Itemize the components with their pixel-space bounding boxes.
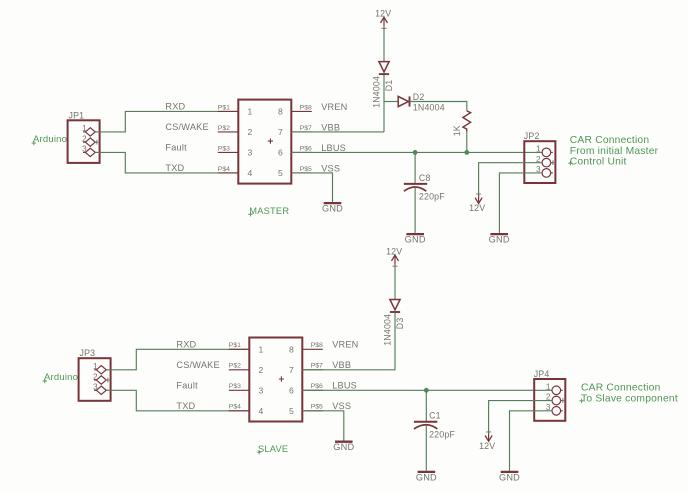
svg-text:P$1: P$1	[229, 342, 241, 349]
svg-text:D1: D1	[384, 80, 394, 92]
svg-text:From initial Master: From initial Master	[570, 146, 659, 157]
ground below JP2	[489, 234, 510, 245]
svg-text:220pF: 220pF	[429, 429, 455, 439]
svg-text:1: 1	[546, 381, 551, 391]
svg-text:VSS: VSS	[321, 163, 340, 173]
capacitor C8 (polarized)	[404, 184, 427, 191]
svg-text:LBUS: LBUS	[332, 381, 357, 391]
svg-text:1N4004: 1N4004	[413, 102, 445, 112]
svg-text:Arduino: Arduino	[44, 372, 78, 383]
svg-text:1: 1	[259, 344, 264, 354]
wire JP2 pin3 to ground	[499, 173, 542, 233]
wire JP1 pin1 up to IC pin1 (RXD net)	[95, 111, 238, 131]
wire 12V to D3 anode	[394, 266, 396, 299]
svg-text:VSS: VSS	[332, 401, 351, 411]
svg-text:3: 3	[248, 148, 253, 158]
wire JP2 pin2 to 12V supply	[479, 163, 542, 194]
svg-text:1: 1	[93, 361, 98, 371]
svg-text:12V: 12V	[375, 9, 391, 19]
svg-text:VBB: VBB	[321, 122, 340, 132]
wire VSS (IC pin5) to ground	[291, 173, 332, 202]
svg-text:JP3: JP3	[80, 348, 96, 358]
wire JP1 pin3 down to IC pin4 (TXD net)	[95, 152, 238, 173]
ground below VSS (slave)	[333, 442, 354, 453]
svg-text:P$5: P$5	[300, 166, 312, 173]
svg-text:5: 5	[278, 168, 283, 178]
green label MASTER	[248, 206, 289, 216]
wire D3 cathode down to VBB row	[302, 313, 395, 370]
svg-text:LBUS: LBUS	[321, 143, 346, 153]
svg-text:JP1: JP1	[69, 110, 85, 120]
diode D1 1N4004 (vertical)	[379, 62, 389, 75]
svg-text:2: 2	[82, 133, 87, 143]
svg-text:CS/WAKE: CS/WAKE	[176, 360, 219, 370]
diode D3 1N4004 (vertical)	[390, 300, 400, 313]
green note: CAR Connection From initial Master Control Unit	[568, 135, 658, 168]
junction dot LBUS / C1	[424, 388, 429, 393]
svg-text:C1: C1	[429, 411, 441, 421]
svg-text:GND: GND	[416, 472, 437, 482]
supply +12V up-arrow (slave)	[394, 255, 396, 266]
svg-text:5: 5	[289, 406, 294, 416]
svg-text:D3: D3	[395, 318, 405, 330]
IC SLAVE right pin stubs (pins 8-5)	[302, 349, 323, 411]
svg-text:GND: GND	[489, 235, 510, 245]
svg-text:GND: GND	[405, 235, 426, 245]
svg-text:2: 2	[248, 127, 253, 137]
connector JP3 (3-pin Arduino header)	[79, 348, 111, 401]
svg-text:MASTER: MASTER	[249, 206, 289, 216]
ground below VSS (master)	[322, 203, 343, 214]
svg-text:CAR Connection: CAR Connection	[581, 383, 661, 394]
svg-text:VBB: VBB	[332, 360, 351, 370]
svg-text:7: 7	[289, 365, 294, 375]
wire JP3 pin3 down to IC pin4 (TXD net)	[106, 390, 249, 411]
svg-text:C8: C8	[419, 173, 431, 183]
svg-text:8: 8	[289, 344, 294, 354]
green note: CAR Connection To Slave component	[579, 383, 678, 405]
wire JP4 pin2 to 12V supply	[489, 401, 552, 432]
svg-text:P$1: P$1	[218, 104, 230, 111]
junction dot LBUS / C8	[413, 150, 418, 155]
svg-text:6: 6	[278, 148, 283, 158]
svg-text:3: 3	[93, 382, 98, 392]
svg-text:P$3: P$3	[218, 145, 230, 152]
svg-text:Arduino: Arduino	[33, 134, 67, 145]
svg-text:1K: 1K	[452, 125, 462, 136]
svg-text:4: 4	[259, 406, 264, 416]
svg-text:P$8: P$8	[311, 342, 323, 349]
connector JP2 (CAR connection master)	[524, 131, 556, 183]
svg-text:VREN: VREN	[321, 102, 347, 112]
svg-text:P$6: P$6	[311, 383, 323, 390]
wire D2 cathode to resistor top	[410, 102, 467, 111]
supply 12V down-arrow at JP2	[478, 194, 480, 203]
svg-text:SLAVE: SLAVE	[258, 444, 288, 454]
svg-text:P$3: P$3	[229, 383, 241, 390]
wire JP4 pin3 to ground	[510, 411, 553, 471]
IC SLAVE left pin stubs (pins 1-4)	[229, 349, 250, 411]
wire 12V to D1 anode	[383, 28, 385, 61]
IC MASTER pin numbers 1-8	[248, 107, 284, 179]
green label "Arduino" at JP3	[43, 372, 79, 383]
svg-text:RXD: RXD	[165, 102, 185, 112]
wire resistor bottom to LBUS row	[466, 131, 468, 152]
svg-text:JP4: JP4	[534, 369, 550, 379]
svg-text:P$4: P$4	[229, 404, 241, 411]
ground below C8	[405, 234, 426, 245]
svg-text:Fault: Fault	[165, 143, 187, 153]
wire VSS (slave IC pin5) to ground	[302, 411, 344, 441]
wire VBB row from IC pin7 to vertical	[291, 131, 384, 133]
IC MASTER right pin stubs (pins 8-5)	[291, 111, 312, 172]
svg-text:P$6: P$6	[300, 145, 312, 152]
svg-text:P$7: P$7	[311, 363, 323, 370]
ground below C1	[416, 472, 437, 483]
svg-text:8: 8	[278, 107, 283, 117]
svg-text:CS/WAKE: CS/WAKE	[165, 122, 208, 132]
svg-text:3: 3	[82, 144, 87, 154]
svg-text:Control Unit: Control Unit	[570, 156, 627, 167]
resistor 1K (vertical zigzag)	[463, 111, 471, 132]
wire C8 bottom plate down to ground	[414, 187, 416, 233]
svg-text:4: 4	[248, 168, 253, 178]
IC SLAVE pin numbers 1-8	[259, 344, 295, 416]
svg-text:1: 1	[82, 123, 87, 133]
wire LBUS junction down to C8 top plate	[414, 152, 416, 183]
junction dot LBUS / 1K resistor	[464, 150, 469, 155]
svg-text:2: 2	[259, 365, 264, 375]
svg-text:P$8: P$8	[300, 104, 312, 111]
svg-text:TXD: TXD	[165, 163, 184, 173]
wire C1 bottom plate down to ground	[425, 425, 427, 471]
svg-text:1: 1	[536, 144, 541, 154]
connector JP4 (CAR connection slave)	[534, 369, 566, 421]
svg-text:TXD: TXD	[176, 401, 195, 411]
wire LBUS junction down to C1 top plate	[425, 390, 427, 421]
svg-text:1N4004: 1N4004	[372, 76, 382, 108]
capacitor C1 (polarized)	[414, 422, 438, 429]
svg-text:To Slave component: To Slave component	[581, 393, 678, 404]
svg-text:VREN: VREN	[332, 340, 358, 350]
svg-text:P$5: P$5	[311, 404, 323, 411]
supply +12V up-arrow (master)	[383, 17, 385, 28]
IC SLAVE transceiver body	[249, 338, 302, 422]
IC SLAVE pin name labels P$1..P$8	[229, 342, 323, 411]
IC MASTER left pin stubs (pins 1-4)	[218, 111, 239, 172]
supply 12V down-arrow at JP4	[488, 432, 490, 441]
svg-text:P$2: P$2	[229, 363, 241, 370]
wire LBUS row from IC pin6 to JP4 pin1	[302, 389, 552, 391]
svg-text:12V: 12V	[479, 441, 495, 451]
IC MASTER pin name labels P$1..P$8	[218, 104, 312, 173]
wire JP3 pin1 up to IC pin1 (RXD net)	[106, 349, 249, 370]
svg-text:CAR Connection: CAR Connection	[570, 135, 650, 146]
svg-text:12V: 12V	[469, 203, 485, 213]
svg-text:JP2: JP2	[524, 131, 540, 141]
svg-text:220pF: 220pF	[419, 192, 445, 202]
svg-text:2: 2	[93, 371, 98, 381]
diode D2 1N4004 (horizontal)	[398, 96, 409, 106]
svg-text:3: 3	[259, 385, 264, 395]
green label "Arduino" at JP1	[32, 134, 68, 145]
ground below JP4	[499, 472, 520, 483]
svg-text:GND: GND	[322, 204, 343, 214]
wire node to D2 anode	[384, 101, 398, 103]
svg-text:GND: GND	[333, 442, 354, 452]
svg-text:P$2: P$2	[218, 125, 230, 132]
green label SLAVE	[257, 444, 288, 454]
svg-text:1: 1	[248, 107, 253, 117]
connector JP1 (3-pin Arduino header)	[68, 110, 100, 163]
svg-text:6: 6	[289, 385, 294, 395]
svg-text:D2: D2	[413, 92, 425, 102]
svg-text:GND: GND	[499, 472, 520, 482]
wire D1 cathode down to VBB row (node with D2)	[383, 75, 385, 132]
svg-text:RXD: RXD	[176, 340, 196, 350]
svg-text:Fault: Fault	[176, 381, 198, 391]
wire LBUS row from IC pin6 to JP2 pin1	[291, 151, 542, 153]
IC MASTER transceiver body	[238, 100, 291, 184]
svg-text:P$7: P$7	[300, 125, 312, 132]
svg-text:1N4004: 1N4004	[383, 314, 393, 346]
svg-text:7: 7	[278, 127, 283, 137]
svg-text:P$4: P$4	[218, 166, 230, 173]
svg-text:12V: 12V	[386, 247, 402, 257]
